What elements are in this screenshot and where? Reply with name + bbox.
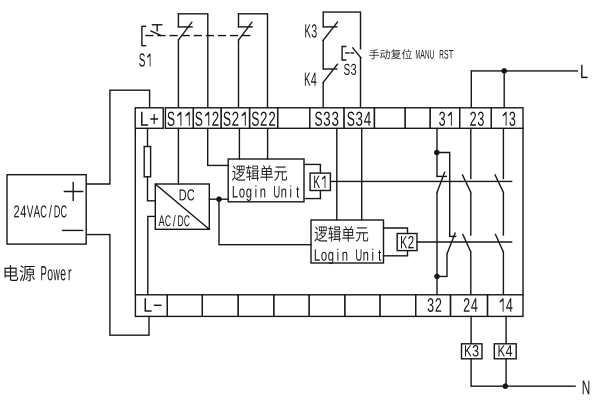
label S22 (252, 112, 275, 126)
wire bridge to S12 (178, 14, 207, 108)
wire bridge to S3 (323, 12, 360, 49)
S1 linkage dashed line (146, 35, 250, 37)
terminal 23 (460, 108, 492, 129)
wire S12 to logic unit 1 (208, 128, 229, 165)
terminal cell (unused) (278, 108, 310, 129)
S1 contact channel 2 (NC) (238, 14, 240, 27)
wire S11 to converter (177, 128, 179, 184)
terminal 13 (491, 108, 523, 129)
terminal L− (135, 295, 167, 317)
terminal S22 (250, 108, 278, 129)
terminal cell (unused) (309, 295, 345, 317)
fuse F1 (144, 147, 150, 177)
wire U2 to K2 coil top (384, 228, 408, 234)
label 逻辑单元 (U1) (232, 165, 287, 181)
relay coil K2 (397, 234, 417, 251)
wire junction to logic unit 2 (219, 199, 311, 245)
label 逻辑单元 (U2) (314, 226, 368, 242)
supply rail N (505, 385, 575, 387)
wire terminal 23 down (470, 128, 472, 178)
terminal cell (unused) (202, 295, 238, 317)
label 14 (500, 298, 513, 311)
wire bridge to S22 (239, 14, 268, 108)
label 13 (503, 112, 516, 126)
logic unit U2 (311, 220, 384, 263)
label L (581, 65, 587, 78)
wire K4 to S33 (322, 83, 324, 108)
terminal S12 (193, 108, 221, 129)
terminal S21 (221, 108, 250, 129)
label S21 (224, 112, 246, 126)
junction converter output (216, 196, 222, 202)
manual reset button S3 (NO) (342, 47, 346, 61)
label Login Unit (U2) (315, 249, 381, 265)
junction 31 (434, 150, 440, 156)
terminal cell (unused) (167, 295, 202, 317)
label K4 coil (498, 345, 512, 356)
contact K2 NO (13-14) (496, 235, 504, 252)
contact K3 (NC feedback) (322, 12, 324, 27)
emergency stop button S1 operator (142, 26, 146, 45)
contactor coil K3 (462, 344, 483, 359)
terminal 31 (430, 108, 460, 129)
label S11 (167, 112, 189, 126)
label K2 (401, 236, 414, 249)
wire U1 to K1 coil top (304, 164, 320, 173)
terminal 24 (451, 295, 488, 317)
contact K2 NO (23-24) (463, 235, 471, 252)
label S33 (315, 112, 338, 126)
wire L+ to fuse (147, 128, 149, 146)
terminal S34 (344, 108, 374, 129)
terminal cell (unused) (238, 295, 274, 317)
label 31 (439, 112, 452, 126)
S1 contact channel 1 (NC) (177, 14, 179, 27)
contact K1 NO (23-24) (463, 175, 471, 192)
label K4 (305, 73, 317, 86)
label S12 (195, 112, 218, 126)
wire L to terminal 23 (470, 71, 472, 108)
wire converter to L- (148, 216, 156, 294)
wire S21 to U1 (238, 128, 240, 159)
wire fuse to converter (148, 177, 156, 201)
label K1 (314, 176, 325, 188)
terminal cell (unused) (374, 108, 405, 129)
label 24VAC/DC (14, 205, 67, 218)
label K3 coil (465, 345, 479, 357)
junction on L rail (501, 68, 507, 74)
label 32 (428, 298, 442, 312)
wire S33 to U2 (336, 128, 338, 220)
safety relay module outline (134, 128, 136, 294)
wire U2 to K2 coil bottom (384, 251, 408, 256)
label S34 (347, 112, 371, 126)
label Login Unit (U1) (233, 185, 299, 201)
wire to terminal 14 (502, 252, 504, 295)
mechanical link K1 contacts (330, 180, 511, 182)
terminal cell (unused) (345, 295, 380, 317)
label DC (180, 189, 195, 200)
contact K1 NO (13-14) (495, 175, 503, 192)
terminal cell (unused) (380, 295, 416, 317)
terminal S33 (310, 108, 344, 129)
wire K2 NC to junction 32 (437, 254, 447, 277)
wire contact2 to S21 (238, 40, 240, 108)
label 23 (470, 112, 484, 126)
wire terminal 13 down (502, 128, 504, 178)
wire terminal 31 down (436, 128, 438, 152)
wire K3 to K4 (322, 41, 324, 69)
label 24 (464, 298, 478, 312)
wire S3 to S34 (360, 58, 362, 108)
wire coil K4 to N (505, 359, 507, 386)
label L− (145, 298, 162, 311)
label L+ (141, 112, 158, 126)
label MANU RST (416, 50, 453, 59)
terminal cell (unused) (274, 295, 309, 317)
wire S34 to U2 (361, 128, 363, 220)
label S1 (139, 53, 150, 66)
terminal cell (unused) (405, 108, 430, 129)
wire + to L+ (86, 90, 149, 184)
terminal L+ (135, 108, 163, 129)
label AC/DC (159, 215, 190, 226)
label 手动复位 (369, 49, 412, 59)
junction 32 (434, 274, 440, 280)
mechanical link K2 contacts (417, 241, 512, 243)
wire U1 to K1 coil bottom (304, 191, 320, 199)
wire terminal 24 to coil K3 (470, 316, 472, 343)
terminal 14 (488, 295, 524, 317)
terminal S11 (165, 108, 193, 129)
supply rail L (471, 70, 577, 72)
wire coil K3 to N (471, 359, 505, 386)
wire between contacts (502, 192, 504, 235)
AC/DC converter (155, 184, 209, 229)
logic unit U1 (228, 159, 304, 202)
plus terminal mark (64, 191, 82, 193)
label S3 (344, 64, 356, 75)
contact K1 NC (31-32 left branch) (436, 153, 438, 177)
label Power (41, 266, 71, 280)
label 电源 (5, 265, 35, 281)
wire converter output (209, 198, 228, 200)
wire L to terminal 13 (503, 71, 505, 108)
relay coil K1 (310, 173, 330, 190)
terminal 32 (416, 295, 451, 317)
power supply source 24VAC/DC (7, 175, 86, 244)
wire S22 to U1 (267, 128, 269, 159)
contactor coil K4 (494, 344, 516, 359)
wire right branch from 31 (437, 153, 450, 237)
minus terminal mark (63, 229, 83, 231)
contact K4 (NC feedback) (323, 68, 337, 70)
wire terminal 14 to coil K4 (505, 316, 507, 343)
wire - to L- (86, 235, 149, 336)
label K3 (305, 24, 316, 37)
wire to terminal 24 (470, 252, 472, 295)
label N (583, 381, 590, 395)
wire junction to terminal 32 (436, 276, 438, 294)
wire contact1 to S11 (177, 40, 179, 108)
wire K1 NC to junction 32 (436, 193, 438, 277)
contact K2 NC (31-32 right branch) (450, 235, 456, 237)
wire between contacts (470, 192, 472, 235)
junction on N rail (503, 383, 509, 389)
